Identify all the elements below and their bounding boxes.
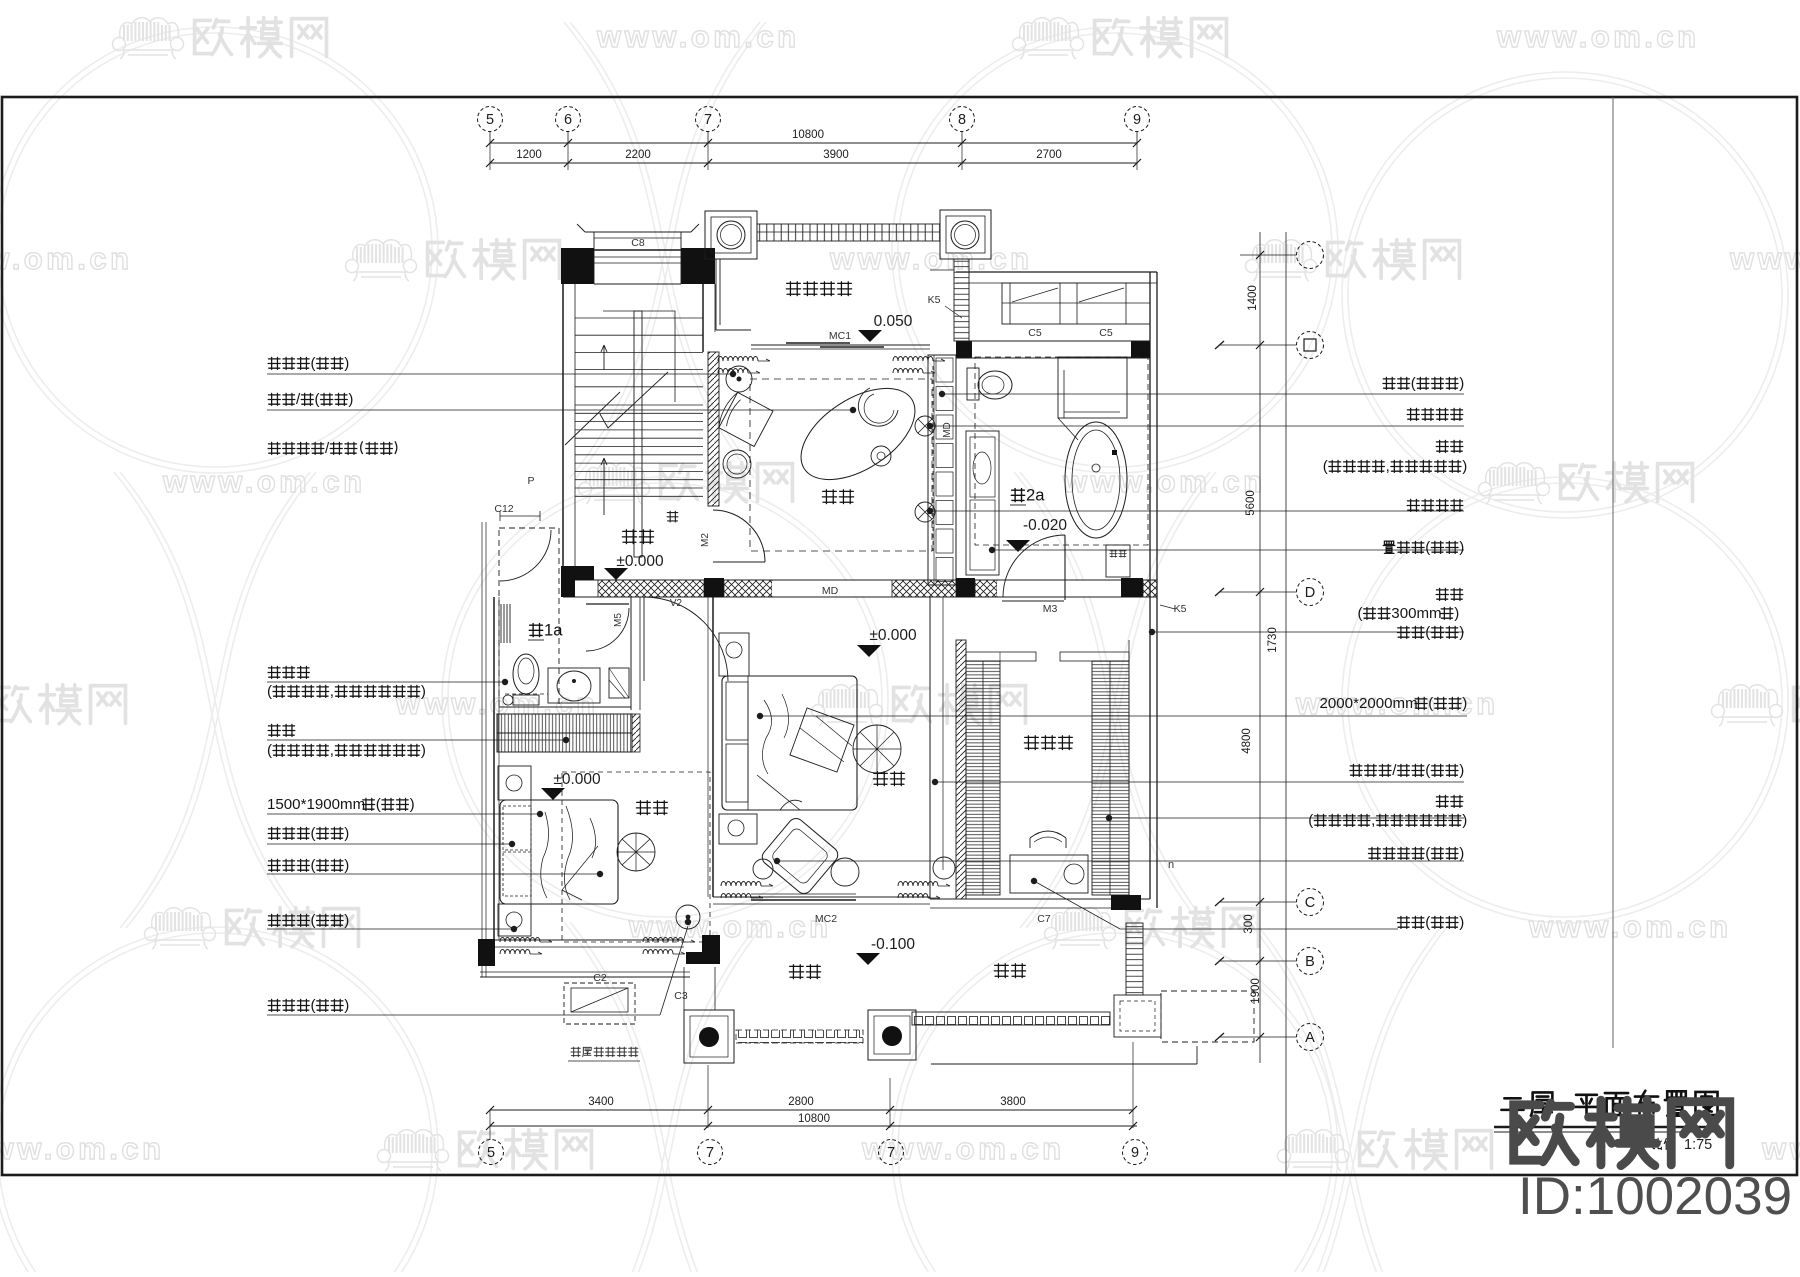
radiator top right [893, 357, 945, 374]
svg-text:www.om.cn: www.om.cn [1496, 19, 1700, 54]
svg-text:C5: C5 [1099, 327, 1113, 339]
svg-text:A: A [1305, 1030, 1315, 1046]
axis bubbles 5 6 7 8 9 top [478, 107, 503, 132]
label right 装饰壁灯 [1407, 499, 1463, 511]
hall door arc [644, 597, 728, 681]
svg-text:9: 9 [1131, 1145, 1139, 1161]
right dimension lines [1259, 232, 1261, 1063]
svg-text:1200: 1200 [516, 149, 542, 161]
svg-text:www.om.cn: www.om.cn [1761, 1131, 1800, 1166]
master left wall inner [707, 597, 709, 897]
svg-text:,: , [330, 683, 334, 700]
stair left wall inner [574, 284, 576, 566]
level -0.100 [856, 936, 915, 965]
master bottom wall [713, 897, 930, 904]
wall hatch seg a [598, 580, 704, 597]
svg-text:C7: C7 [1037, 913, 1051, 925]
svg-text:(: ( [1428, 695, 1433, 712]
label left 床头柜(购买) [268, 825, 349, 842]
terrace railing mid [736, 1030, 863, 1043]
svg-text:K5: K5 [1174, 603, 1187, 615]
leader [932, 779, 1464, 785]
window MC2 [751, 899, 856, 901]
leader [989, 547, 1464, 553]
label right 装饰壁灯 [1407, 408, 1463, 420]
study side table [723, 450, 751, 478]
balcony left wall [716, 259, 751, 330]
svg-text:2200: 2200 [625, 149, 651, 161]
svg-text:-0.100: -0.100 [871, 936, 915, 953]
svg-text:(: ( [376, 796, 381, 813]
stair right wall upper [702, 284, 704, 352]
cloak dresser [1010, 855, 1088, 893]
stair left wall [562, 284, 564, 566]
ac label underline [568, 1060, 640, 1062]
master headboard top [719, 633, 749, 676]
bath2 shower [1058, 357, 1127, 418]
label left 1500*1900mm床(购买) [267, 796, 415, 813]
leader [267, 841, 515, 847]
label down char [667, 511, 678, 522]
leader [927, 508, 1464, 514]
wall column b2 [956, 578, 975, 598]
label right 电视柜/书桌(购买) [1350, 762, 1464, 779]
c12 dim bracket [500, 511, 540, 521]
svg-text:): ) [344, 825, 349, 842]
wall hatch seg c [892, 580, 956, 597]
bath2 wall top-left block [956, 341, 972, 358]
study desk oval [785, 370, 930, 498]
ac unit platform [564, 983, 635, 1024]
svg-text:,: , [330, 742, 334, 759]
label left 衣柜 [268, 724, 295, 736]
cloak shelf top b [1060, 652, 1129, 661]
svg-text:±0.000: ±0.000 [616, 553, 664, 570]
guest dashed zone [562, 772, 710, 942]
svg-text:): ) [1459, 762, 1464, 779]
study bookcase [928, 355, 956, 585]
axis bubbles bottom [479, 1140, 504, 1165]
leader [267, 811, 543, 817]
room label 阳台 [789, 965, 820, 979]
left extension line a [481, 522, 483, 977]
study left wall hatch [708, 352, 719, 506]
svg-text:(: ( [315, 391, 320, 408]
leader [1149, 629, 1464, 635]
svg-text:1400: 1400 [1247, 285, 1259, 311]
cloak inner right wall [1128, 640, 1130, 895]
svg-text:(: ( [1358, 605, 1363, 622]
label left 床头柜(购买) [268, 912, 349, 929]
svg-text:5: 5 [487, 1145, 495, 1161]
stair right wall inner [714, 284, 716, 332]
svg-text:(: ( [311, 825, 316, 842]
guest left wall inner [498, 597, 500, 940]
master bed 2000 [722, 676, 857, 810]
svg-text:7: 7 [887, 1145, 895, 1161]
svg-text:(: ( [311, 355, 316, 372]
svg-text:1a: 1a [544, 620, 563, 639]
door opening M0 [772, 581, 892, 596]
title underline thin [1494, 1131, 1716, 1133]
svg-text:): ) [1462, 458, 1467, 475]
guest fan symbol [617, 833, 655, 871]
room label 衣帽间 [1024, 736, 1072, 750]
title 二层 平面布置图 [1501, 1098, 1523, 1110]
study bookcase front dashed [932, 366, 934, 551]
label right 置物架(购买) [1383, 539, 1464, 556]
wall hatch seg e [1143, 580, 1157, 597]
title block separator line [1612, 97, 1614, 1048]
pipe shaft 管井 [1106, 545, 1130, 577]
bath1 mirror [501, 604, 510, 643]
label right 斗柜(购买) [1397, 624, 1464, 641]
bath1 right wall [630, 597, 632, 710]
svg-text:(: ( [1411, 375, 1416, 392]
svg-text:10800: 10800 [792, 129, 824, 141]
level 0.050 [858, 313, 913, 342]
bath2 bathtub [1065, 422, 1127, 538]
leader [267, 371, 736, 377]
leader [267, 926, 517, 932]
svg-text:): ) [1459, 845, 1464, 862]
svg-text:C12: C12 [494, 503, 513, 515]
svg-text:-0.020: -0.020 [1023, 517, 1067, 534]
bath2 door M3 [1002, 600, 1064, 602]
terrace right column block [1114, 995, 1161, 1037]
cloak shelf top a [966, 652, 1036, 661]
bottom dimension lines [490, 1109, 1133, 1111]
wall column b1 [704, 578, 724, 598]
room label 主卧 [873, 772, 904, 786]
room label 露台 [994, 964, 1025, 978]
svg-text:4800: 4800 [1241, 728, 1253, 754]
top dimension lines [490, 142, 1137, 144]
svg-text:www.om.cn: www.om.cn [1528, 909, 1732, 944]
svg-text:3800: 3800 [1000, 1096, 1026, 1108]
stair top-left wall [561, 248, 594, 284]
master fan symbol [853, 725, 901, 773]
leader [1106, 815, 1464, 821]
bath1 bottom line [499, 706, 631, 708]
balcony column right [940, 210, 991, 259]
room label 梯间 [622, 530, 653, 544]
balcony floor line [930, 269, 954, 271]
svg-text:,: , [1371, 812, 1375, 829]
svg-text:(: ( [1425, 539, 1430, 556]
svg-text:1:75: 1:75 [1684, 1137, 1712, 1153]
svg-text:±0.000: ±0.000 [869, 627, 917, 644]
middle wall band lines [563, 579, 1157, 581]
svg-text:(: ( [1323, 458, 1328, 475]
svg-text:K5: K5 [928, 294, 941, 306]
svg-text:MC1: MC1 [829, 330, 851, 342]
title underline thick [1494, 1126, 1716, 1128]
stair top-right wall [681, 248, 715, 284]
master-cloak wall [930, 597, 943, 899]
bath1 label underline [528, 639, 544, 641]
bath1 sink [548, 668, 600, 703]
svg-text:C5: C5 [1028, 327, 1042, 339]
stair bottom-left wall [561, 566, 594, 597]
level -0.020 [1006, 517, 1067, 552]
svg-text:9: 9 [1133, 112, 1141, 128]
svg-text:2800: 2800 [788, 1096, 814, 1108]
terrace column left [684, 1010, 734, 1063]
svg-text:): ) [344, 997, 349, 1014]
terrace column right [868, 1010, 916, 1060]
svg-text:): ) [1459, 624, 1464, 641]
label right 浴缸 [1436, 440, 1463, 452]
svg-text:1730: 1730 [1267, 627, 1279, 653]
cloak corner block [1111, 895, 1141, 910]
guest nightstand top [498, 766, 531, 800]
balcony column left [705, 211, 757, 259]
watermark logo rows [113, 18, 327, 59]
guest wardrobe band [497, 714, 632, 752]
leader [774, 858, 1464, 864]
room label 给水阳台 [786, 282, 851, 296]
svg-text:): ) [421, 742, 426, 759]
level ±0.000 master [857, 627, 917, 657]
svg-text:(: ( [1425, 624, 1430, 641]
wall column b3 [1121, 578, 1143, 598]
label right 书柜(现场做) [1383, 375, 1464, 392]
leader [927, 423, 1464, 429]
level ±0.000 stair [604, 553, 664, 580]
svg-text:): ) [1462, 695, 1467, 712]
terrace se dashed parapet [1161, 991, 1254, 1042]
terrace right ladder [1126, 923, 1143, 995]
stair up arrow lower [601, 458, 607, 515]
master headboard bottom [719, 814, 757, 844]
guest wardrobe mid line [497, 732, 632, 734]
svg-text:): ) [1462, 812, 1467, 829]
guest bottom column [686, 935, 720, 964]
guest wardrobe end hatch [632, 714, 640, 752]
bath2 wall top-right block [1131, 341, 1150, 358]
label right 夜灯 [1436, 588, 1463, 600]
svg-text:V2: V2 [670, 598, 683, 609]
svg-text:MD: MD [822, 585, 839, 597]
svg-text:(: ( [1425, 914, 1430, 931]
label left 落地灯(购买) [268, 997, 349, 1014]
svg-text:(: ( [1425, 845, 1430, 862]
wall lamp upper [915, 416, 935, 436]
bath1 toilet [513, 654, 539, 694]
svg-text:www.om.cn: www.om.cn [0, 241, 133, 276]
stair treads [575, 317, 703, 319]
svg-text:(: ( [267, 742, 272, 759]
leader [267, 919, 691, 1015]
svg-text:): ) [348, 391, 353, 408]
label right 妆台(购买) [1397, 914, 1464, 931]
stair up arrow upper [601, 345, 607, 370]
svg-text:B: B [1305, 954, 1315, 970]
svg-text:): ) [344, 857, 349, 874]
sliding door MC1 [751, 344, 930, 346]
bath1 dashed counter [505, 693, 548, 695]
terrace edge line [684, 1046, 1197, 1070]
svg-text:www.om.cn: www.om.cn [0, 1131, 165, 1166]
svg-text:5: 5 [486, 112, 494, 128]
left extension line b [485, 522, 487, 977]
leader [267, 407, 856, 413]
svg-text:C: C [1305, 895, 1315, 911]
svg-text:(: ( [267, 683, 272, 700]
svg-text:1500*1900mm: 1500*1900mm [267, 796, 365, 813]
leader dresser [1031, 878, 1398, 929]
radiator master right [898, 882, 950, 899]
svg-text:C8: C8 [631, 237, 645, 249]
study armchair [715, 391, 773, 447]
level ±0.000 guest [541, 771, 601, 800]
svg-text:300mm: 300mm [1391, 605, 1441, 622]
svg-text:2000*2000mm: 2000*2000mm [1320, 695, 1418, 712]
svg-text:0.050: 0.050 [874, 313, 913, 330]
guest bed [500, 800, 618, 904]
radiator guest left [500, 938, 552, 955]
svg-text:7: 7 [704, 112, 712, 128]
bath2 label underline [1010, 504, 1026, 506]
title scale 比例 1:75 [1653, 1137, 1712, 1153]
guest left wall [493, 597, 495, 940]
terrace left step [480, 967, 715, 1010]
bath1 entry arc [500, 530, 551, 581]
svg-text:C2: C2 [593, 972, 607, 984]
svg-text:,: , [1386, 458, 1390, 475]
svg-text:D: D [1305, 585, 1315, 601]
watermark circles [0, 27, 438, 473]
label left 电视柜(购买) [268, 857, 349, 874]
room label 客房 [636, 801, 667, 815]
master left wall [712, 597, 714, 897]
room label 卫1a [529, 620, 563, 639]
svg-text:MD: MD [942, 422, 953, 438]
bath1 door M5 [586, 603, 629, 605]
big gray logo 欧模网 [1514, 1103, 1576, 1162]
svg-text:www.om.cn: www.om.cn [596, 19, 800, 54]
label left 落地灯(购买) [268, 355, 349, 372]
svg-text:): ) [1459, 539, 1464, 556]
label right 休闲沙发(购买) [1368, 845, 1464, 862]
leader [267, 679, 508, 685]
label right 2000*2000mm床(购买) [1320, 695, 1468, 712]
balcony railing top [757, 224, 940, 241]
watermark crossing curves [564, 22, 766, 478]
svg-text:): ) [344, 355, 349, 372]
cloak wardrobe left [966, 661, 1000, 895]
svg-text:www.om.cn: www.om.cn [829, 241, 1033, 276]
axis bubble square right top [1240, 254, 1296, 256]
label K5 top [928, 294, 962, 318]
radiator master left [721, 882, 773, 899]
radiator guest right [643, 938, 695, 955]
svg-text:): ) [1459, 375, 1464, 392]
svg-text:5600: 5600 [1245, 490, 1257, 516]
svg-text:M3: M3 [1043, 603, 1058, 615]
bath2 outer walls [956, 271, 1157, 273]
study dashed zone [750, 379, 932, 551]
master lounge chair [759, 815, 841, 896]
svg-text:): ) [344, 912, 349, 929]
wall lamp lower [915, 502, 935, 522]
svg-text:MC2: MC2 [815, 913, 837, 925]
svg-text:(: ( [1308, 812, 1313, 829]
svg-text:M2: M2 [700, 533, 711, 547]
terrace railing right [912, 1012, 1110, 1025]
cloak bottom wall [930, 899, 1150, 908]
room label 书房 [822, 490, 853, 504]
windows C5 pair [1002, 283, 1150, 324]
svg-text:(: ( [311, 912, 316, 929]
balcony k5 shaft [954, 259, 969, 341]
svg-text:8: 8 [958, 112, 966, 128]
cloak stool [1030, 831, 1066, 848]
bath2 top wall line [956, 341, 1150, 358]
bath2 dashed boundary [975, 357, 1148, 545]
svg-text:): ) [421, 683, 426, 700]
svg-text:(: ( [1425, 762, 1430, 779]
svg-text:www.om.cn: www.om.cn [1729, 241, 1800, 276]
label left 书桌/椅(购买) [268, 391, 353, 408]
label left (项目下单，专业厂家订制) [267, 742, 426, 759]
room label 卫2a [1011, 485, 1045, 504]
cloak right wall [1150, 597, 1157, 908]
cloak left wall hatch [956, 640, 966, 899]
svg-text:3400: 3400 [588, 1096, 614, 1108]
svg-text:): ) [1454, 605, 1459, 622]
svg-text:(: ( [311, 997, 316, 1014]
leader [757, 713, 1467, 719]
label right (离地300mm高) [1358, 605, 1460, 622]
label left (项目下单，专业厂家订制) [267, 683, 426, 700]
label right (项目下单，专业厂家订制) [1308, 812, 1467, 829]
svg-text:300: 300 [1243, 914, 1255, 933]
door opening M3 [997, 581, 1121, 596]
bath1 dashed boundary [499, 528, 559, 707]
radiator top left [718, 357, 770, 374]
study door M2 [713, 510, 765, 562]
wall hatch seg d [975, 580, 997, 597]
label right 衣柜 [1436, 795, 1463, 807]
svg-text:www.om.cn: www.om.cn [162, 464, 366, 499]
svg-text:2a: 2a [1026, 485, 1045, 504]
guest nightstand bottom [498, 904, 531, 936]
window C2 sill [480, 972, 690, 977]
bath2 toilet [967, 368, 979, 400]
label 下层空调机位 [571, 1047, 638, 1056]
svg-text:): ) [410, 796, 415, 813]
stair break line [565, 372, 668, 445]
svg-text:M5: M5 [613, 613, 624, 627]
svg-text:P: P [527, 475, 534, 487]
bath1 cabinet [609, 668, 629, 698]
svg-text:±0.000: ±0.000 [553, 771, 601, 788]
study floor lamp [726, 366, 752, 392]
bath2 vanity [966, 431, 999, 575]
svg-text:6: 6 [564, 112, 572, 128]
svg-text:): ) [1459, 914, 1464, 931]
leader [939, 391, 1464, 397]
guest bottom wall [495, 940, 684, 947]
label left 全身镜 [268, 666, 309, 678]
leader [267, 737, 569, 743]
window C8 [585, 231, 691, 233]
guest bottom-left wall block [478, 939, 495, 966]
label K5 bottom [1160, 603, 1187, 615]
svg-text:7: 7 [706, 1145, 714, 1161]
